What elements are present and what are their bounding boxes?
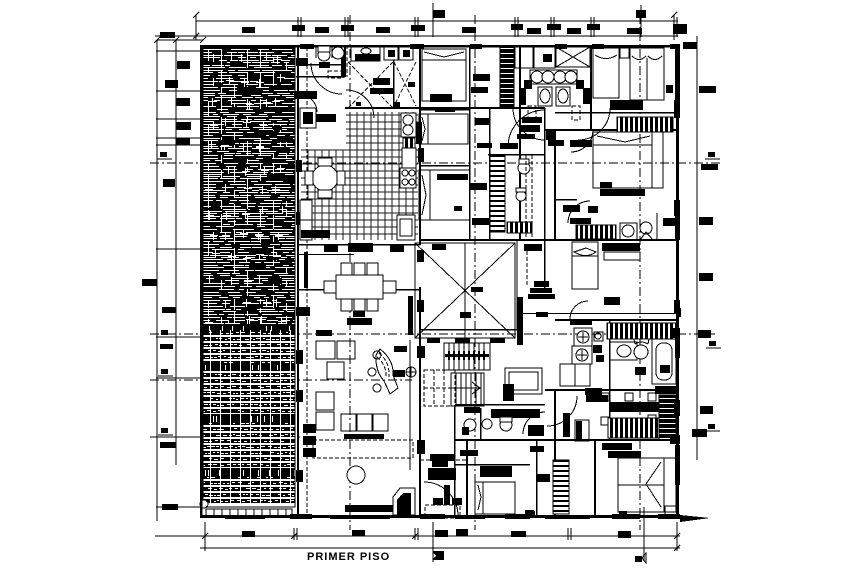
closet strip bottom V xyxy=(608,418,672,438)
bed D top-mid xyxy=(422,49,466,102)
corridor bars x470-490 xyxy=(470,118,492,225)
svg-text:PRIMER PISO: PRIMER PISO xyxy=(307,551,390,563)
wall horizontal y65 bath xyxy=(299,64,345,66)
bottom wall fills2 xyxy=(225,515,590,519)
roof X rect xyxy=(415,243,515,338)
wall horizontal y200 small bath xyxy=(555,199,577,201)
north flag markers top xyxy=(433,3,646,37)
wall vertical x467 maid left xyxy=(466,440,468,518)
stairs shaft dashed xyxy=(424,370,455,406)
bath2 sinks xyxy=(531,71,577,83)
bed W bottom-right xyxy=(618,458,676,512)
centerline axis horizontal B xyxy=(150,333,715,335)
bed K mid-right xyxy=(570,132,663,196)
kitchen stove xyxy=(400,168,416,188)
kitchen counter dark top xyxy=(301,230,330,238)
wall horizontal y290 living xyxy=(299,289,421,291)
white edging box bottom right xyxy=(665,506,677,517)
dressing hanger squares xyxy=(601,393,656,425)
hall dark rect xyxy=(520,125,540,132)
bed D3 left xyxy=(419,170,470,220)
dimension text blobs left xyxy=(142,32,191,510)
stairs flight2 treads xyxy=(451,373,484,406)
corner unit xyxy=(393,488,415,515)
hatch white corner circle xyxy=(200,500,208,508)
wardrobe strip top (x500) xyxy=(500,47,514,107)
elevator box xyxy=(503,368,542,401)
centerline axis horizontal C xyxy=(150,379,412,381)
bar below arc xyxy=(570,319,592,325)
wall vertical x555 bottom xyxy=(554,390,556,518)
room below arc xyxy=(300,95,317,112)
kitchenette stove burner1 xyxy=(574,328,592,346)
dining wall bars xyxy=(324,243,404,252)
vertical bar left xyxy=(563,413,570,437)
wall vertical x455 bottom xyxy=(454,405,456,518)
entry dashed xyxy=(420,460,466,518)
roof X bars xyxy=(408,287,483,330)
bath L bars xyxy=(563,205,676,226)
kitchen cabinet low xyxy=(397,215,415,240)
wall vertical x545 xyxy=(544,108,546,293)
kitchen floor grid xyxy=(301,112,418,240)
right wall fills xyxy=(675,48,680,485)
powder sink 1 xyxy=(482,419,492,429)
dressing heavy bar xyxy=(585,388,660,412)
bath J dark strip xyxy=(507,222,532,233)
dressing door arc xyxy=(547,396,577,426)
kitchen counter mid xyxy=(402,148,416,168)
bath2 top cells xyxy=(515,47,555,68)
bath W dark sq xyxy=(635,367,646,375)
dimension line left inner xyxy=(175,40,177,465)
kitchen top appliance 2 xyxy=(399,46,413,60)
wall vertical x307 dashed xyxy=(306,47,308,515)
bath2 cell dark sq xyxy=(543,54,552,62)
kitchen counter bar xyxy=(310,114,336,122)
wall horizontal y130 right xyxy=(545,129,679,131)
dining wall bar left xyxy=(304,252,308,288)
wardrobe strip J (x491) xyxy=(490,155,505,232)
bed M bottom-mid vertical xyxy=(572,242,598,289)
maid wardrobe strip xyxy=(553,460,569,514)
right wall extra fills xyxy=(655,308,681,444)
living armchair 3 xyxy=(316,392,334,430)
wall horizontal y77 bath1 xyxy=(296,76,345,78)
maid top blobs xyxy=(480,466,550,482)
sofa row xyxy=(341,414,388,439)
wall horizontal y330 stairs top xyxy=(420,329,520,331)
kitchen dish rack xyxy=(403,138,415,148)
hall pyramid bars xyxy=(528,281,555,299)
wall horizontal y108 top rooms xyxy=(345,107,545,109)
wall vertical x345 top xyxy=(344,45,346,77)
bath L door arc xyxy=(568,201,590,223)
wall vertical x595 bottom xyxy=(594,440,596,518)
living wall x420 fills xyxy=(417,346,425,454)
wall sq right xyxy=(666,85,673,93)
stairs flight1 treads xyxy=(444,343,490,370)
roof bottom dash fills xyxy=(427,338,505,343)
living wall x300 fills2 xyxy=(296,160,302,225)
bath W toilet xyxy=(634,339,649,359)
tv cabinet xyxy=(345,505,393,512)
wall door jamb x343 xyxy=(341,52,346,77)
patio X room 2 diagonals xyxy=(394,62,416,106)
stairs arrow1 hatchy xyxy=(445,351,489,360)
dimension line top outer xyxy=(196,20,678,22)
bed F dark bar xyxy=(610,100,643,110)
centerline axis vertical C xyxy=(639,15,641,530)
bath2 door arcs xyxy=(513,108,610,140)
corridor corner fill xyxy=(546,131,556,140)
bed D2 left xyxy=(419,108,468,144)
HATCH-START xyxy=(203,47,295,330)
dimension line bottom outer xyxy=(200,547,680,549)
powder dark counter band xyxy=(491,409,540,418)
powder toilet 1 xyxy=(462,419,476,435)
flag marker bottom right xyxy=(635,553,646,563)
maid small blob xyxy=(525,511,535,517)
centerline axis horizontal D xyxy=(150,436,300,438)
bath J toilet xyxy=(518,159,530,174)
wall vertical x537 maid right xyxy=(536,440,538,518)
corridor bars upper xyxy=(471,74,535,139)
powder door arc xyxy=(523,412,545,434)
centerline axis vertical A xyxy=(349,15,351,530)
living armchair 2 xyxy=(327,362,344,379)
bottom wall arrow end xyxy=(680,515,710,522)
wall vertical x555 xyxy=(554,130,556,240)
dimension line bottom inner xyxy=(155,535,680,537)
corridor dashed mid xyxy=(526,155,532,286)
dimension ticks bottom xyxy=(202,507,680,562)
hatch frame xyxy=(203,47,295,507)
bath L right wall xyxy=(656,213,658,240)
bath L bidet figure xyxy=(640,222,653,240)
wall horizontal y320 mid xyxy=(555,319,679,321)
wall planter circle xyxy=(406,367,416,377)
kitchen sink unit xyxy=(401,113,416,137)
dining chair fill xyxy=(353,311,365,317)
bath2 wc stall a xyxy=(538,87,552,106)
hall small bar xyxy=(536,312,548,317)
wall vertical x470 xyxy=(469,45,471,241)
wall vertical x520 xyxy=(519,45,521,240)
powder toilet 2 xyxy=(500,417,512,431)
wall horizontal y166 left beds xyxy=(420,165,470,167)
bed W dresser bars xyxy=(602,443,641,458)
wall horizontal y405 powder xyxy=(455,404,545,406)
wall horizontal y155 mid xyxy=(488,154,545,156)
bath1 door arc xyxy=(311,63,342,94)
wall horizontal y440 xyxy=(455,439,679,441)
bath2 door leaf dashes xyxy=(528,106,580,120)
wall horizontal y255 dining top xyxy=(299,254,354,255)
small bath L strip xyxy=(576,225,616,239)
bath2 wc stall b xyxy=(556,87,570,106)
dimension stub lines left xyxy=(156,51,203,507)
wall horizontal y113 right xyxy=(555,112,679,114)
flag marker bottom left xyxy=(433,551,444,560)
bed M dresser xyxy=(602,243,640,260)
kitchenette stove burner2 xyxy=(572,346,592,364)
door arc hall top xyxy=(508,110,545,147)
entry door arc xyxy=(424,482,458,516)
bath2 sink counter xyxy=(530,70,577,84)
powder dark blob right xyxy=(528,425,544,436)
wall horizontal y390 xyxy=(545,389,679,391)
wall vertical x300 xyxy=(297,45,299,518)
bath W sink counter xyxy=(610,342,637,360)
bath1 left fill xyxy=(296,58,308,66)
stairs landing bar xyxy=(464,407,480,413)
section marker symbols right xyxy=(705,152,721,431)
wall fill blobs right wall xyxy=(674,100,680,416)
dimension line top inner xyxy=(155,35,678,37)
roof X left edge fills xyxy=(417,250,424,312)
patio dark rects xyxy=(356,78,415,108)
hatch bottom edging boxes xyxy=(206,509,292,516)
nightstand F xyxy=(620,48,629,58)
maid bed xyxy=(475,482,515,514)
closet strip right hbars xyxy=(659,395,676,440)
entry blobs xyxy=(428,454,462,505)
kitchen fridge xyxy=(300,108,316,128)
section marker symbols left xyxy=(157,152,173,435)
dimension line left outer xyxy=(156,40,158,521)
living carpet dashed xyxy=(313,440,413,458)
dimension ticks top xyxy=(193,12,677,40)
outer wall left xyxy=(200,45,203,518)
bath1 sink xyxy=(332,47,344,59)
kitchen wall fills x420 xyxy=(416,122,424,162)
shelf column dark xyxy=(303,424,316,457)
kitchenette boxes xyxy=(593,332,604,362)
wall vertical x394 patio divider xyxy=(393,60,395,108)
corridor door bars xyxy=(500,117,564,149)
dining wall bar right xyxy=(408,297,413,335)
door arc bed2 xyxy=(571,130,593,152)
bath1 dashed divider xyxy=(346,45,348,77)
wall horizontal y465 maid xyxy=(455,464,530,466)
dining table xyxy=(324,263,396,311)
dimension text blobs top xyxy=(242,24,687,34)
outer wall right xyxy=(676,45,679,518)
bed F twin A xyxy=(593,48,619,98)
closet box left xyxy=(575,420,589,441)
bath1 toilet xyxy=(316,46,332,61)
living armchair 1 xyxy=(316,341,355,359)
dining sideboard xyxy=(347,318,372,325)
shower X top xyxy=(556,47,590,67)
door arc kitchen xyxy=(346,90,374,118)
bath1 dark fill xyxy=(319,62,330,68)
living round table xyxy=(347,466,365,484)
kitchen round table xyxy=(305,158,345,198)
kitchen lower counter xyxy=(300,200,312,240)
room below bath1 blob xyxy=(294,91,317,99)
curved bar counter xyxy=(368,349,398,394)
bed F twin B xyxy=(630,48,664,100)
bar black rects xyxy=(393,346,407,377)
bath L toilet box xyxy=(620,223,637,240)
dimension text blobs right xyxy=(683,42,718,437)
wall y314 xyxy=(520,313,680,314)
bath2 jambs xyxy=(520,88,590,105)
wall horizontal y240 major xyxy=(420,239,679,241)
outer wall bottom xyxy=(200,515,680,518)
wall fill blobs top wall xyxy=(300,44,680,49)
left top stub xyxy=(154,37,206,43)
dining side blob xyxy=(296,307,310,316)
outer wall top xyxy=(200,45,680,48)
closet strip top V xyxy=(607,323,677,339)
dimension text blobs bottom xyxy=(242,510,631,538)
kitchen top counter sink xyxy=(351,46,380,61)
kitchen top appliance 1 xyxy=(384,46,398,60)
wall vertical x420 xyxy=(419,45,421,245)
wall double x410 xyxy=(409,340,411,470)
hall wall x517 xyxy=(517,240,523,345)
wall horizontal y110 left beds xyxy=(420,109,470,111)
bath1 door dashes xyxy=(328,71,343,78)
wall vertical x591 top xyxy=(590,45,592,130)
powder divider xyxy=(480,408,482,440)
living wall fills xyxy=(296,330,332,482)
kitchenette counter xyxy=(560,364,590,386)
closet strip G right xyxy=(617,117,673,132)
wall vertical x610 mid xyxy=(609,320,611,440)
patio X room 1 diagonals xyxy=(348,62,393,108)
bed M nightstand blob xyxy=(604,297,620,305)
wall fill blobs bottom wall xyxy=(290,514,680,519)
centerline axis horizontal A xyxy=(150,162,720,164)
bath2 counter dark ends xyxy=(524,80,584,89)
dimension line right xyxy=(696,36,698,460)
bath J bidet xyxy=(516,188,526,201)
wall y245 kitchen-dining xyxy=(299,244,420,246)
misc interior dark blobs xyxy=(432,182,642,456)
bathtub xyxy=(652,339,676,384)
centerline axis vertical B xyxy=(474,15,476,530)
wall vertical x420 lower xyxy=(419,287,421,518)
door arc bedM xyxy=(570,301,588,319)
wall vertical x490 xyxy=(489,108,491,241)
